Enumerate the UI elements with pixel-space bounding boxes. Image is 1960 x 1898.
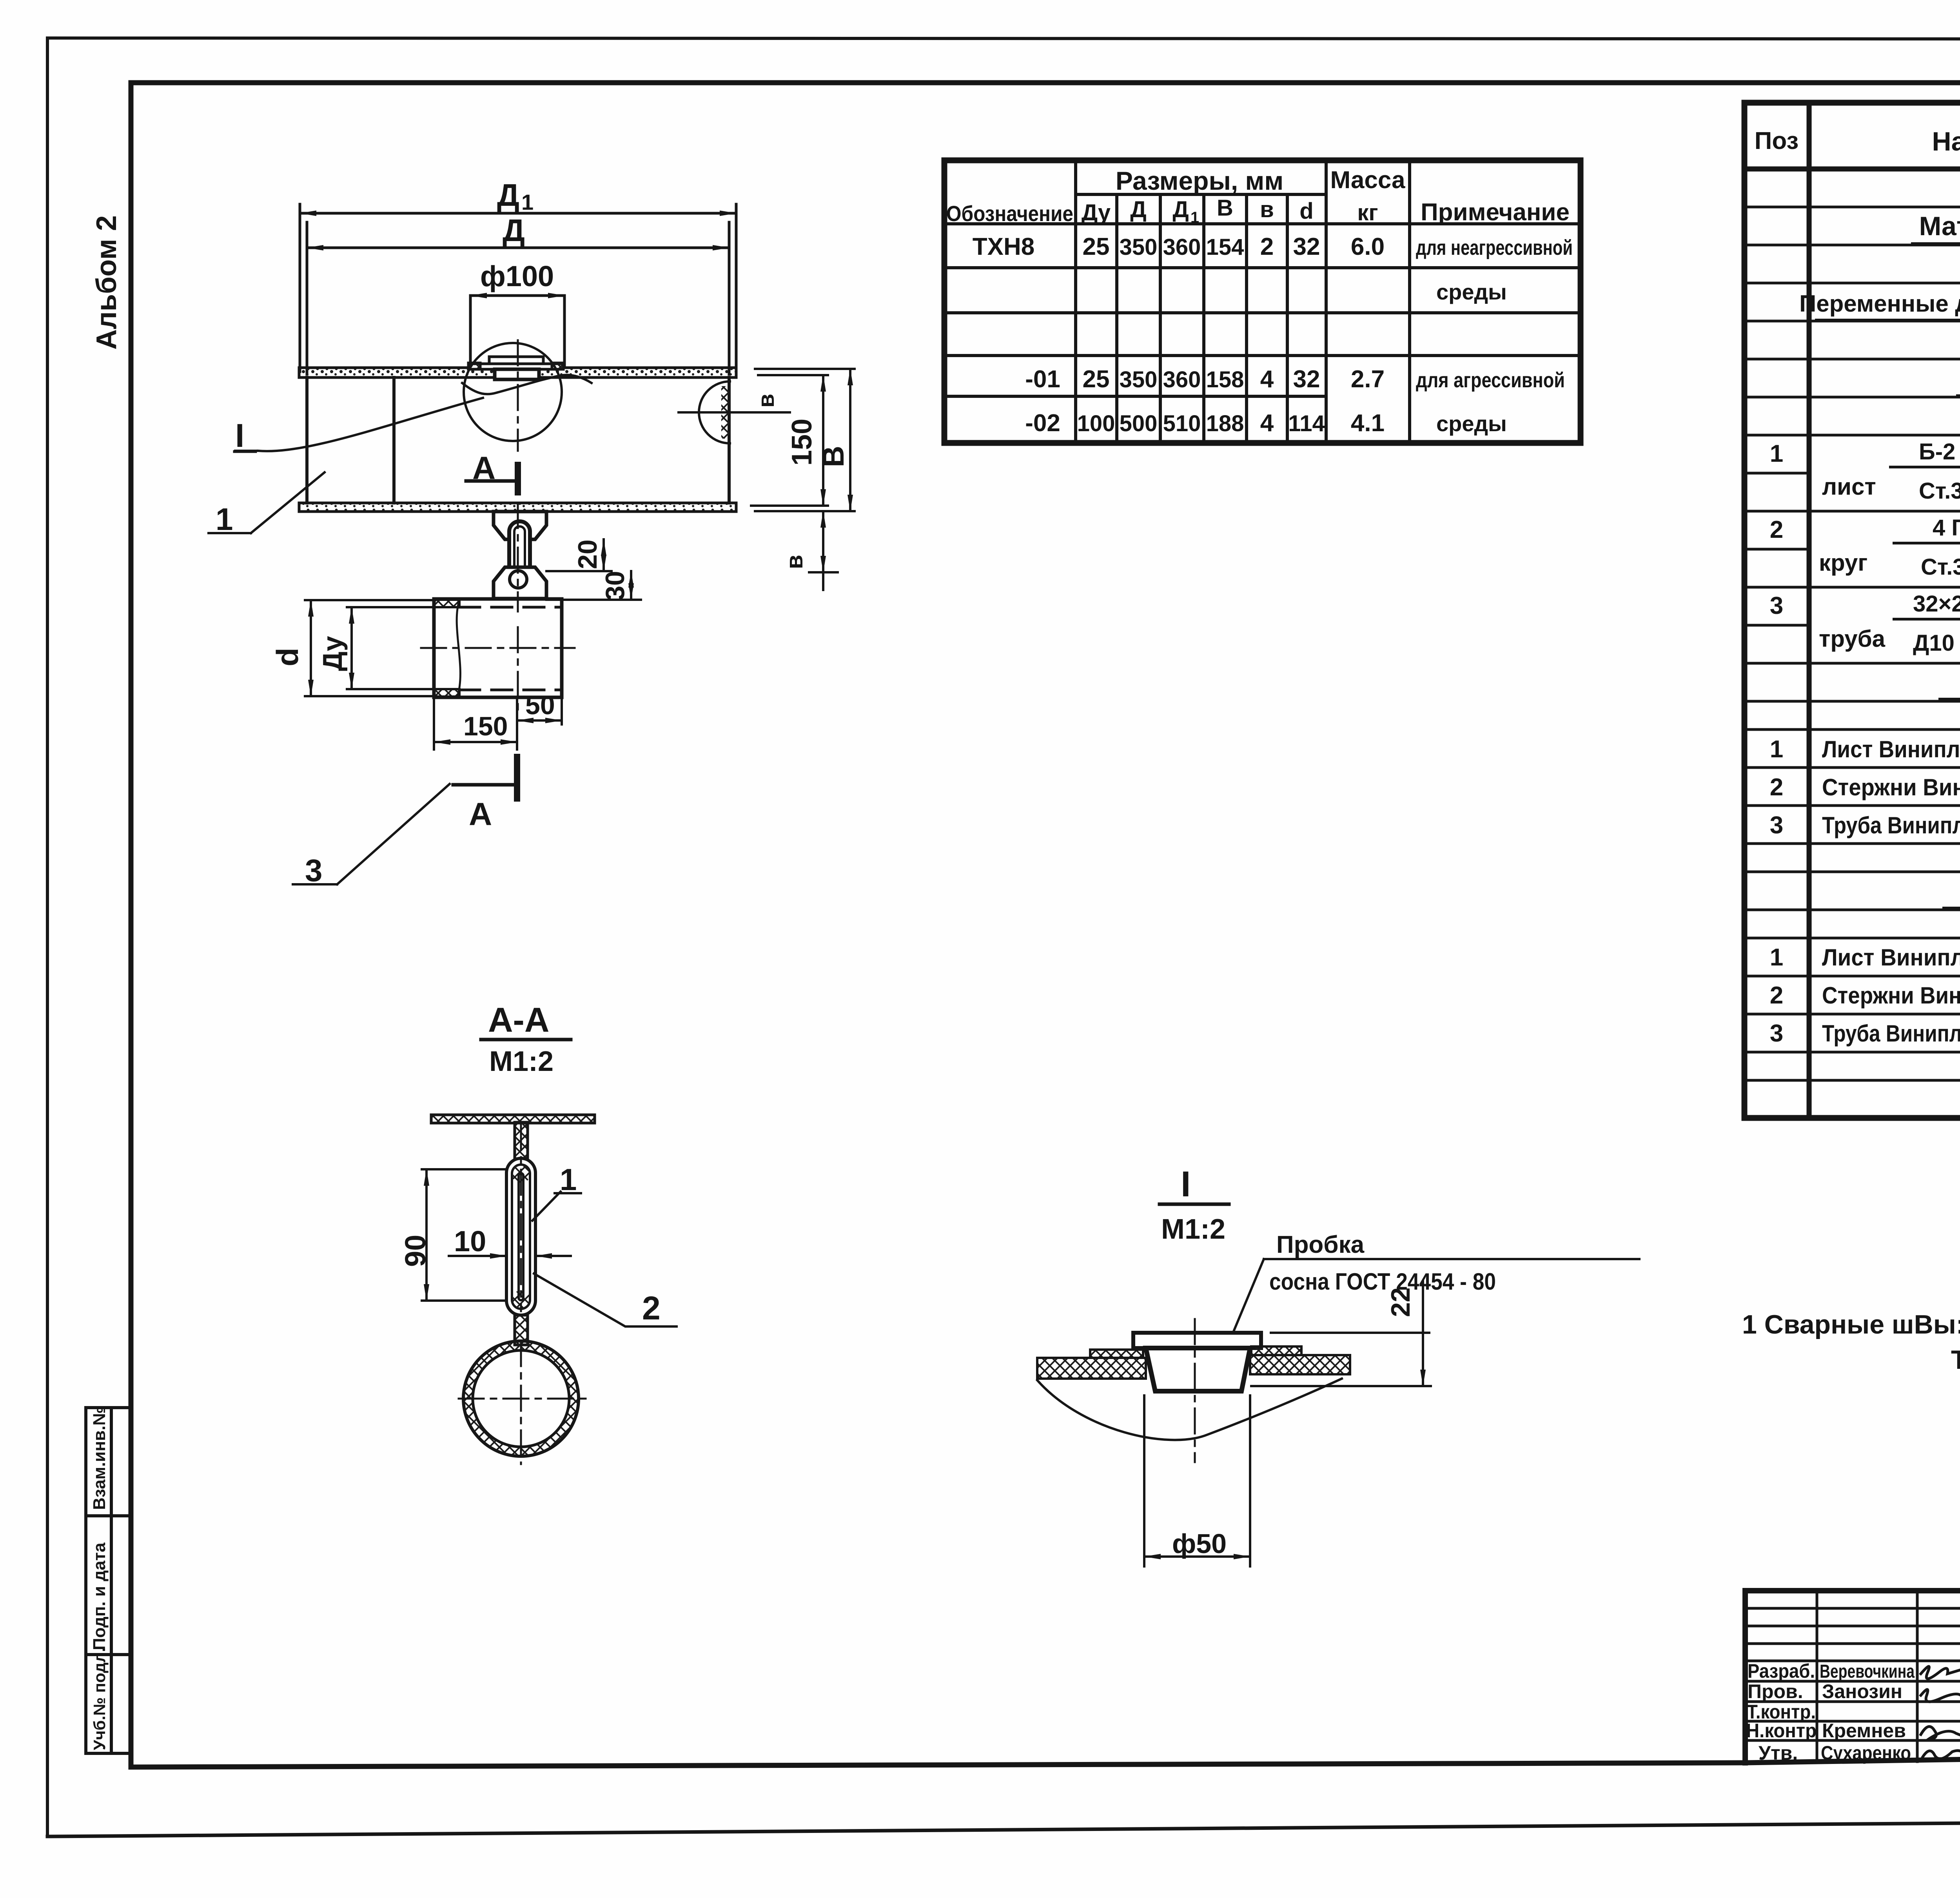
- svg-text:2: 2: [1260, 233, 1274, 260]
- svg-text:Труба Винипластовая 32×3ТУ6-05: Труба Винипластовая 32×3ТУ6-05-1573-77: [1822, 812, 1960, 838]
- svg-text:4: 4: [1260, 366, 1274, 393]
- svg-text:М1:2: М1:2: [489, 1046, 554, 1077]
- svg-text:Учб.№ подл.: Учб.№ подл.: [90, 1648, 109, 1750]
- svg-text:Размеры, мм: Размеры, мм: [1116, 166, 1283, 195]
- svg-text:1: 1: [1770, 944, 1783, 971]
- svg-text:Труба Винипластовая 114×7ТУ6-0: Труба Винипластовая 114×7ТУ6-05-1579-77: [1822, 1020, 1960, 1047]
- svg-text:32×2.5 ГОСТ 8732- 78: 32×2.5 ГОСТ 8732- 78: [1913, 591, 1960, 617]
- svg-text:ф50: ф50: [1172, 1528, 1227, 1559]
- svg-text:2: 2: [642, 1290, 661, 1326]
- svg-text:I: I: [1181, 1164, 1191, 1204]
- svg-text:20: 20: [573, 539, 603, 569]
- svg-text:50: 50: [525, 690, 555, 720]
- svg-text:Стержни Винипласт ф8ТУ6-05-167: Стержни Винипласт ф8ТУ6-05-1672- 77: [1822, 774, 1960, 800]
- svg-text:Б-2 ГОСТ 19903-74: Б-2 ГОСТ 19903-74: [1919, 439, 1960, 465]
- svg-text:2.7: 2.7: [1351, 366, 1385, 393]
- svg-text:Д: Д: [1130, 197, 1146, 222]
- svg-text:3: 3: [1770, 592, 1783, 619]
- svg-text:3: 3: [305, 853, 323, 888]
- svg-text:Лист Винипласта ВНЧ ГОСТ 939: Лист Винипласта ВНЧ ГОСТ 939 - 71: [1822, 944, 1960, 971]
- svg-text:350: 350: [1120, 367, 1158, 392]
- svg-text:среды: среды: [1436, 279, 1507, 304]
- svg-text:Наименование: Наименование: [1932, 127, 1960, 156]
- svg-text:Ду: Ду: [1082, 200, 1111, 225]
- svg-text:Утв.: Утв.: [1759, 1742, 1798, 1764]
- svg-text:Переменные данные для исполнен: Переменные данные для исполнений:: [1799, 290, 1960, 317]
- svg-text:М1:2: М1:2: [1161, 1214, 1225, 1245]
- svg-text:3: 3: [1770, 812, 1783, 839]
- svg-text:32: 32: [1293, 233, 1320, 260]
- svg-text:d: d: [270, 648, 305, 666]
- svg-text:Разраб.: Разраб.: [1748, 1660, 1815, 1682]
- svg-text:3: 3: [1770, 1020, 1783, 1047]
- svg-text:4: 4: [1260, 410, 1274, 437]
- svg-text:4 ГОСТ 2590-71: 4 ГОСТ 2590-71: [1933, 515, 1960, 541]
- svg-text:2: 2: [1770, 982, 1783, 1009]
- svg-text:для агрессивной: для агрессивной: [1416, 368, 1565, 392]
- svg-text:Д: Д: [497, 178, 519, 212]
- svg-text:1: 1: [1191, 209, 1199, 226]
- svg-text:1: 1: [521, 190, 534, 214]
- svg-text:Д10 ГОСТ 8731 - 74: Д10 ГОСТ 8731 - 74: [1913, 630, 1960, 656]
- svg-text:32: 32: [1293, 366, 1320, 393]
- svg-text:1 Сварные шВы: ТХН8 - по Г: 1 Сварные шВы: ТХН8 - по ГОСТ 5264-80: [1742, 1310, 1960, 1339]
- svg-text:круг: круг: [1819, 550, 1867, 576]
- svg-text:Стержни Винипласт ф10ТУ6-05-15: Стержни Винипласт ф10ТУ6-05-1572- 77: [1822, 982, 1960, 1009]
- svg-text:сосна ГОСТ 24454 - 80: сосна ГОСТ 24454 - 80: [1269, 1268, 1496, 1295]
- svg-text:Примечание: Примечание: [1421, 199, 1570, 226]
- svg-text:А: А: [472, 450, 495, 486]
- svg-text:Занозин: Занозин: [1822, 1680, 1902, 1702]
- svg-text:Взам.инв.№: Взам.инв.№: [90, 1406, 109, 1510]
- svg-text:А-А: А-А: [488, 1000, 549, 1039]
- svg-text:ф100: ф100: [480, 260, 554, 292]
- svg-text:Ст.3 ГОСТ 535-79: Ст.3 ГОСТ 535-79: [1921, 554, 1960, 580]
- svg-text:Обозначение: Обозначение: [946, 201, 1073, 226]
- svg-text:360: 360: [1163, 234, 1201, 260]
- svg-text:1: 1: [1770, 736, 1783, 763]
- svg-text:В: В: [1217, 195, 1233, 221]
- svg-text:22: 22: [1386, 1287, 1416, 1317]
- svg-text:158: 158: [1206, 367, 1244, 392]
- svg-text:Кремнев: Кремнев: [1822, 1720, 1906, 1742]
- svg-text:Альбом 2: Альбом 2: [91, 215, 122, 350]
- svg-text:Масса: Масса: [1330, 167, 1405, 194]
- svg-text:I: I: [235, 417, 244, 454]
- svg-text:ТХН8: ТХН8: [973, 233, 1034, 260]
- svg-text:Лист Винипласта ВНЧ ГОСТ 9639: Лист Винипласта ВНЧ ГОСТ 9639 - 71: [1822, 736, 1960, 762]
- svg-text:1: 1: [216, 502, 233, 537]
- svg-text:труба: труба: [1819, 626, 1886, 652]
- svg-text:Д: Д: [1172, 197, 1189, 222]
- svg-text:Пробка: Пробка: [1276, 1231, 1365, 1258]
- svg-text:ТХН8-01, ТХН8-02 по ГОСТ 1631: ТХН8-01, ТХН8-02 по ГОСТ 16310-80: [1951, 1345, 1960, 1375]
- svg-text:360: 360: [1163, 367, 1201, 392]
- svg-text:Подп. и дата: Подп. и дата: [90, 1542, 109, 1650]
- svg-text:1: 1: [560, 1162, 577, 1197]
- svg-text:Материалы: Материалы: [1919, 211, 1960, 241]
- svg-text:2: 2: [1770, 516, 1783, 543]
- svg-text:150: 150: [786, 419, 818, 466]
- svg-text:6.0: 6.0: [1351, 233, 1385, 260]
- svg-text:-01: -01: [1025, 366, 1060, 393]
- svg-text:1: 1: [1770, 440, 1783, 467]
- svg-text:350: 350: [1120, 234, 1158, 260]
- svg-text:10: 10: [454, 1225, 486, 1257]
- svg-text:Ду: Ду: [317, 636, 348, 671]
- svg-text:25: 25: [1083, 366, 1110, 393]
- svg-text:в: в: [1260, 197, 1274, 222]
- svg-text:500: 500: [1120, 411, 1158, 436]
- svg-text:4.1: 4.1: [1351, 410, 1385, 437]
- svg-text:в: в: [753, 394, 779, 408]
- svg-text:среды: среды: [1436, 411, 1507, 436]
- svg-text:Веревочкина: Веревочкина: [1820, 1661, 1915, 1682]
- svg-text:-02: -02: [1025, 410, 1060, 437]
- svg-text:154: 154: [1206, 234, 1244, 260]
- svg-text:Ст.3 ГОСТ 16523-70: Ст.3 ГОСТ 16523-70: [1919, 478, 1960, 504]
- svg-text:2: 2: [1770, 774, 1783, 801]
- svg-text:Н.контр: Н.контр: [1746, 1720, 1817, 1742]
- svg-text:30: 30: [600, 571, 630, 601]
- svg-text:150: 150: [463, 711, 508, 741]
- svg-text:В: В: [817, 446, 850, 467]
- svg-text:лист: лист: [1822, 474, 1876, 500]
- svg-text:для неагрессивной: для неагрессивной: [1416, 236, 1573, 259]
- svg-text:25: 25: [1083, 233, 1110, 260]
- svg-text:кг: кг: [1357, 200, 1378, 225]
- svg-text:Пров.: Пров.: [1748, 1680, 1803, 1702]
- svg-text:188: 188: [1206, 411, 1244, 436]
- svg-text:Поз: Поз: [1755, 127, 1798, 154]
- svg-text:Сухаренко: Сухаренко: [1821, 1742, 1911, 1764]
- svg-text:Д: Д: [503, 213, 525, 248]
- svg-text:510: 510: [1163, 411, 1201, 436]
- svg-text:90: 90: [399, 1235, 432, 1267]
- svg-text:100: 100: [1077, 411, 1115, 436]
- svg-text:в: в: [781, 555, 808, 569]
- svg-text:d: d: [1299, 198, 1313, 224]
- svg-text:А: А: [469, 797, 492, 832]
- svg-text:114: 114: [1288, 411, 1325, 436]
